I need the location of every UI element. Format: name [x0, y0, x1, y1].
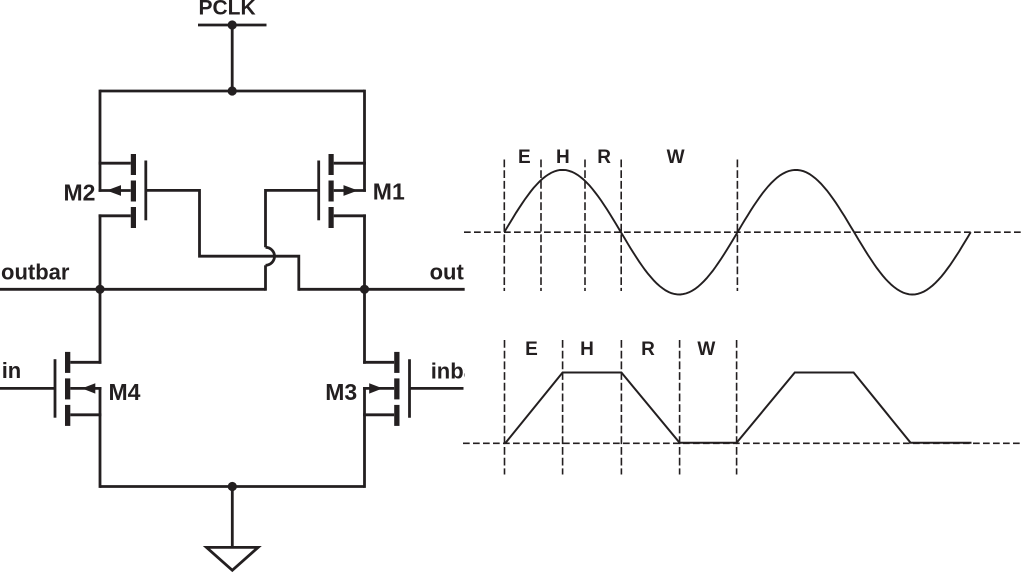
svg-text:M4: M4: [109, 379, 141, 405]
svg-text:E: E: [518, 147, 531, 168]
svg-text:out: out: [430, 259, 465, 284]
svg-text:H: H: [580, 339, 594, 360]
svg-text:in: in: [2, 358, 22, 383]
svg-text:M3: M3: [325, 379, 357, 405]
svg-text:R: R: [597, 147, 611, 168]
svg-text:W: W: [667, 147, 685, 168]
svg-text:H: H: [556, 147, 570, 168]
svg-text:inbar: inbar: [431, 359, 485, 384]
svg-text:R: R: [641, 339, 655, 360]
svg-text:W: W: [697, 339, 715, 360]
svg-text:PCLK: PCLK: [199, 0, 256, 20]
svg-text:outbar: outbar: [1, 259, 70, 284]
svg-text:M1: M1: [373, 179, 405, 205]
svg-text:M2: M2: [64, 179, 96, 205]
svg-text:E: E: [525, 339, 538, 360]
